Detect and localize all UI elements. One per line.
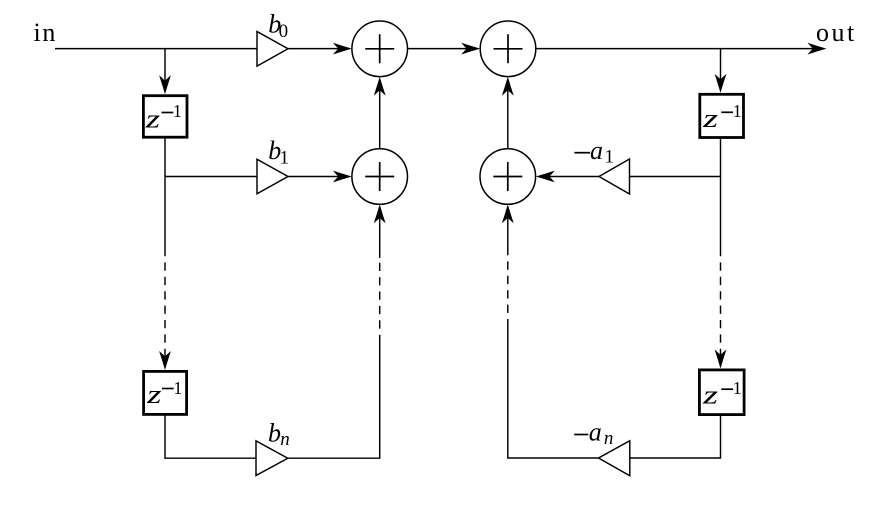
arrowhead into S2 (from S1) <box>461 43 480 55</box>
wire: b0 output to S1 <box>288 48 344 50</box>
svg-text:z: z <box>702 381 718 410</box>
arrowhead into left row-2 summer (from b1) <box>333 171 352 183</box>
svg-text:1: 1 <box>173 378 182 398</box>
wire: S1 to S2 <box>408 48 473 50</box>
wire: dashed segment below S4 <box>507 247 509 321</box>
label z^-1 (bottom-left box) <box>146 378 183 409</box>
wire: S3 up to S1 <box>379 84 381 149</box>
wire: S4 up to S2 <box>507 84 509 149</box>
delay box z^-1 top-left <box>143 96 187 138</box>
summer circle S4 (row 2 right) <box>480 149 536 205</box>
wire: dashed continuation right column <box>720 248 722 361</box>
summer circle S2 (top right) <box>480 21 536 77</box>
label b0 <box>268 9 288 42</box>
svg-text:1: 1 <box>173 101 182 121</box>
amplifier triangle b_n <box>256 441 288 476</box>
node: output label "out" <box>816 18 857 47</box>
wire: dashed continuation left column <box>164 248 166 362</box>
amplifier triangle b1 <box>257 159 288 194</box>
wire: b_n output to column under left row-2 summer <box>288 343 380 458</box>
wire: bottom-left box to bottom row corner <box>165 414 256 458</box>
arrowhead into top-right delay box <box>715 74 727 93</box>
amplifier triangle b0 <box>257 32 288 67</box>
svg-text:1: 1 <box>605 146 615 167</box>
node: branch junction at right column on top wire <box>720 49 722 85</box>
arrowhead at out <box>808 43 827 55</box>
svg-text:0: 0 <box>279 21 289 42</box>
wire: -a1 output to right row-2 summer <box>544 176 600 178</box>
arrowhead left into right row-2 summer <box>536 171 555 183</box>
svg-text:1: 1 <box>733 378 742 398</box>
plus sign in S4 <box>493 162 522 191</box>
summer circle S1 (top left) <box>352 21 408 77</box>
label b1 <box>268 136 289 168</box>
svg-text:out: out <box>816 18 857 47</box>
wire: in to b0 triangle (top row) <box>55 48 257 50</box>
wire: S2 to out (with branch at right column) <box>536 48 819 50</box>
wire: right column row-2 tap to -a1 triangle <box>630 176 721 178</box>
plus sign in S2 <box>494 34 523 63</box>
amplifier triangle -an (points left) <box>599 441 630 476</box>
svg-text:1: 1 <box>733 101 742 121</box>
svg-text:z: z <box>702 104 718 133</box>
wire: below top-left delay box (solid part) <box>164 139 166 248</box>
wire: left column to b1 triangle (row 2) <box>165 176 257 178</box>
svg-text:z: z <box>146 380 162 409</box>
arrowhead into bottom-right delay box <box>715 350 727 369</box>
svg-text:in: in <box>34 18 57 47</box>
svg-text:z: z <box>144 105 160 134</box>
arrowhead up into S4 from below <box>502 204 514 223</box>
arrowhead into S1 (from b0) <box>333 43 352 55</box>
wire: dashed segment under left row-2 summer <box>379 258 381 343</box>
label b_n <box>268 419 290 450</box>
wire: solid shaft into left row-2 summer <box>379 212 381 258</box>
svg-text:1: 1 <box>280 147 290 168</box>
arrowhead into top-left delay box <box>159 75 171 94</box>
svg-text:b: b <box>268 419 281 448</box>
summer circle S3 (row 2 left) <box>352 149 408 205</box>
svg-text:a: a <box>590 136 603 165</box>
svg-text:a: a <box>589 418 602 447</box>
delay box z^-1 bottom-left <box>144 371 187 414</box>
delay box z^-1 top-right <box>700 94 744 137</box>
arrowhead up into S2 <box>502 77 514 96</box>
label z^-1 (top-right box) <box>702 101 742 133</box>
node: branch junction at left column on top wire <box>164 49 166 87</box>
plus sign in S3 <box>365 162 394 191</box>
svg-text:n: n <box>280 429 290 450</box>
label z^-1 (top-left box) <box>144 101 181 134</box>
arrowhead up into S1 <box>374 77 386 96</box>
arrowhead into bottom-left delay box <box>159 351 171 370</box>
wire: below top-right delay box (solid) <box>720 139 722 248</box>
label -a1 <box>574 136 614 168</box>
delay box z^-1 bottom-right <box>699 370 744 415</box>
wire: solid shaft below S4 <box>507 212 509 247</box>
arrowhead up into left row-2 summer <box>374 204 386 223</box>
node: input label "in" <box>34 18 57 47</box>
label z^-1 (bottom-right box) <box>702 378 742 410</box>
svg-text:n: n <box>604 428 614 449</box>
wire: bottom-right row from right column to -an triangle <box>630 415 721 458</box>
wire: b1 output to left row-2 summer <box>288 176 344 178</box>
label -an <box>574 418 613 450</box>
plus sign in S1 <box>365 34 394 63</box>
wire: solid from dashed segment to bottom-right row corner <box>508 321 599 458</box>
amplifier triangle -a1 (points left) <box>599 159 630 194</box>
